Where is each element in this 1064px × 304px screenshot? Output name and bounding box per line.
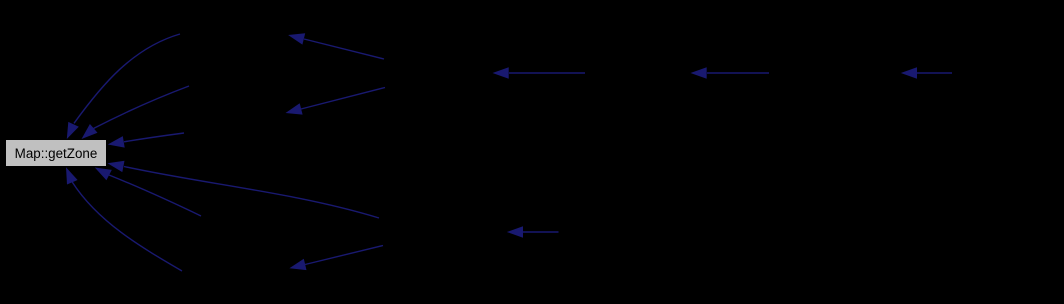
edge caller9 -> Map::getZone bbox=[95, 168, 201, 217]
edge caller10 -> Map::getZone (bottom curve) bbox=[66, 167, 182, 271]
edge caller8 -> Map::getZone (long) bbox=[108, 161, 380, 218]
svg-text:Map::getZone: Map::getZone bbox=[15, 146, 98, 161]
edge caller7 -> caller6 bbox=[901, 67, 952, 79]
node Map::getZone (focused, grey) bbox=[6, 140, 107, 167]
edge caller4 -> caller1 bbox=[288, 33, 384, 59]
edge caller4 -> caller2b bbox=[286, 88, 386, 115]
edge caller1 -> Map::getZone (top curve) bbox=[67, 34, 180, 139]
edge caller5 -> caller4 bbox=[493, 67, 586, 79]
edge caller3 -> Map::getZone bbox=[108, 133, 184, 148]
edge caller6 -> caller5 bbox=[691, 67, 770, 79]
edge caller2 -> Map::getZone (curve) bbox=[82, 86, 190, 139]
edge caller8 -> caller10 bbox=[289, 246, 383, 271]
edge caller11 -> caller8 bbox=[507, 226, 559, 238]
